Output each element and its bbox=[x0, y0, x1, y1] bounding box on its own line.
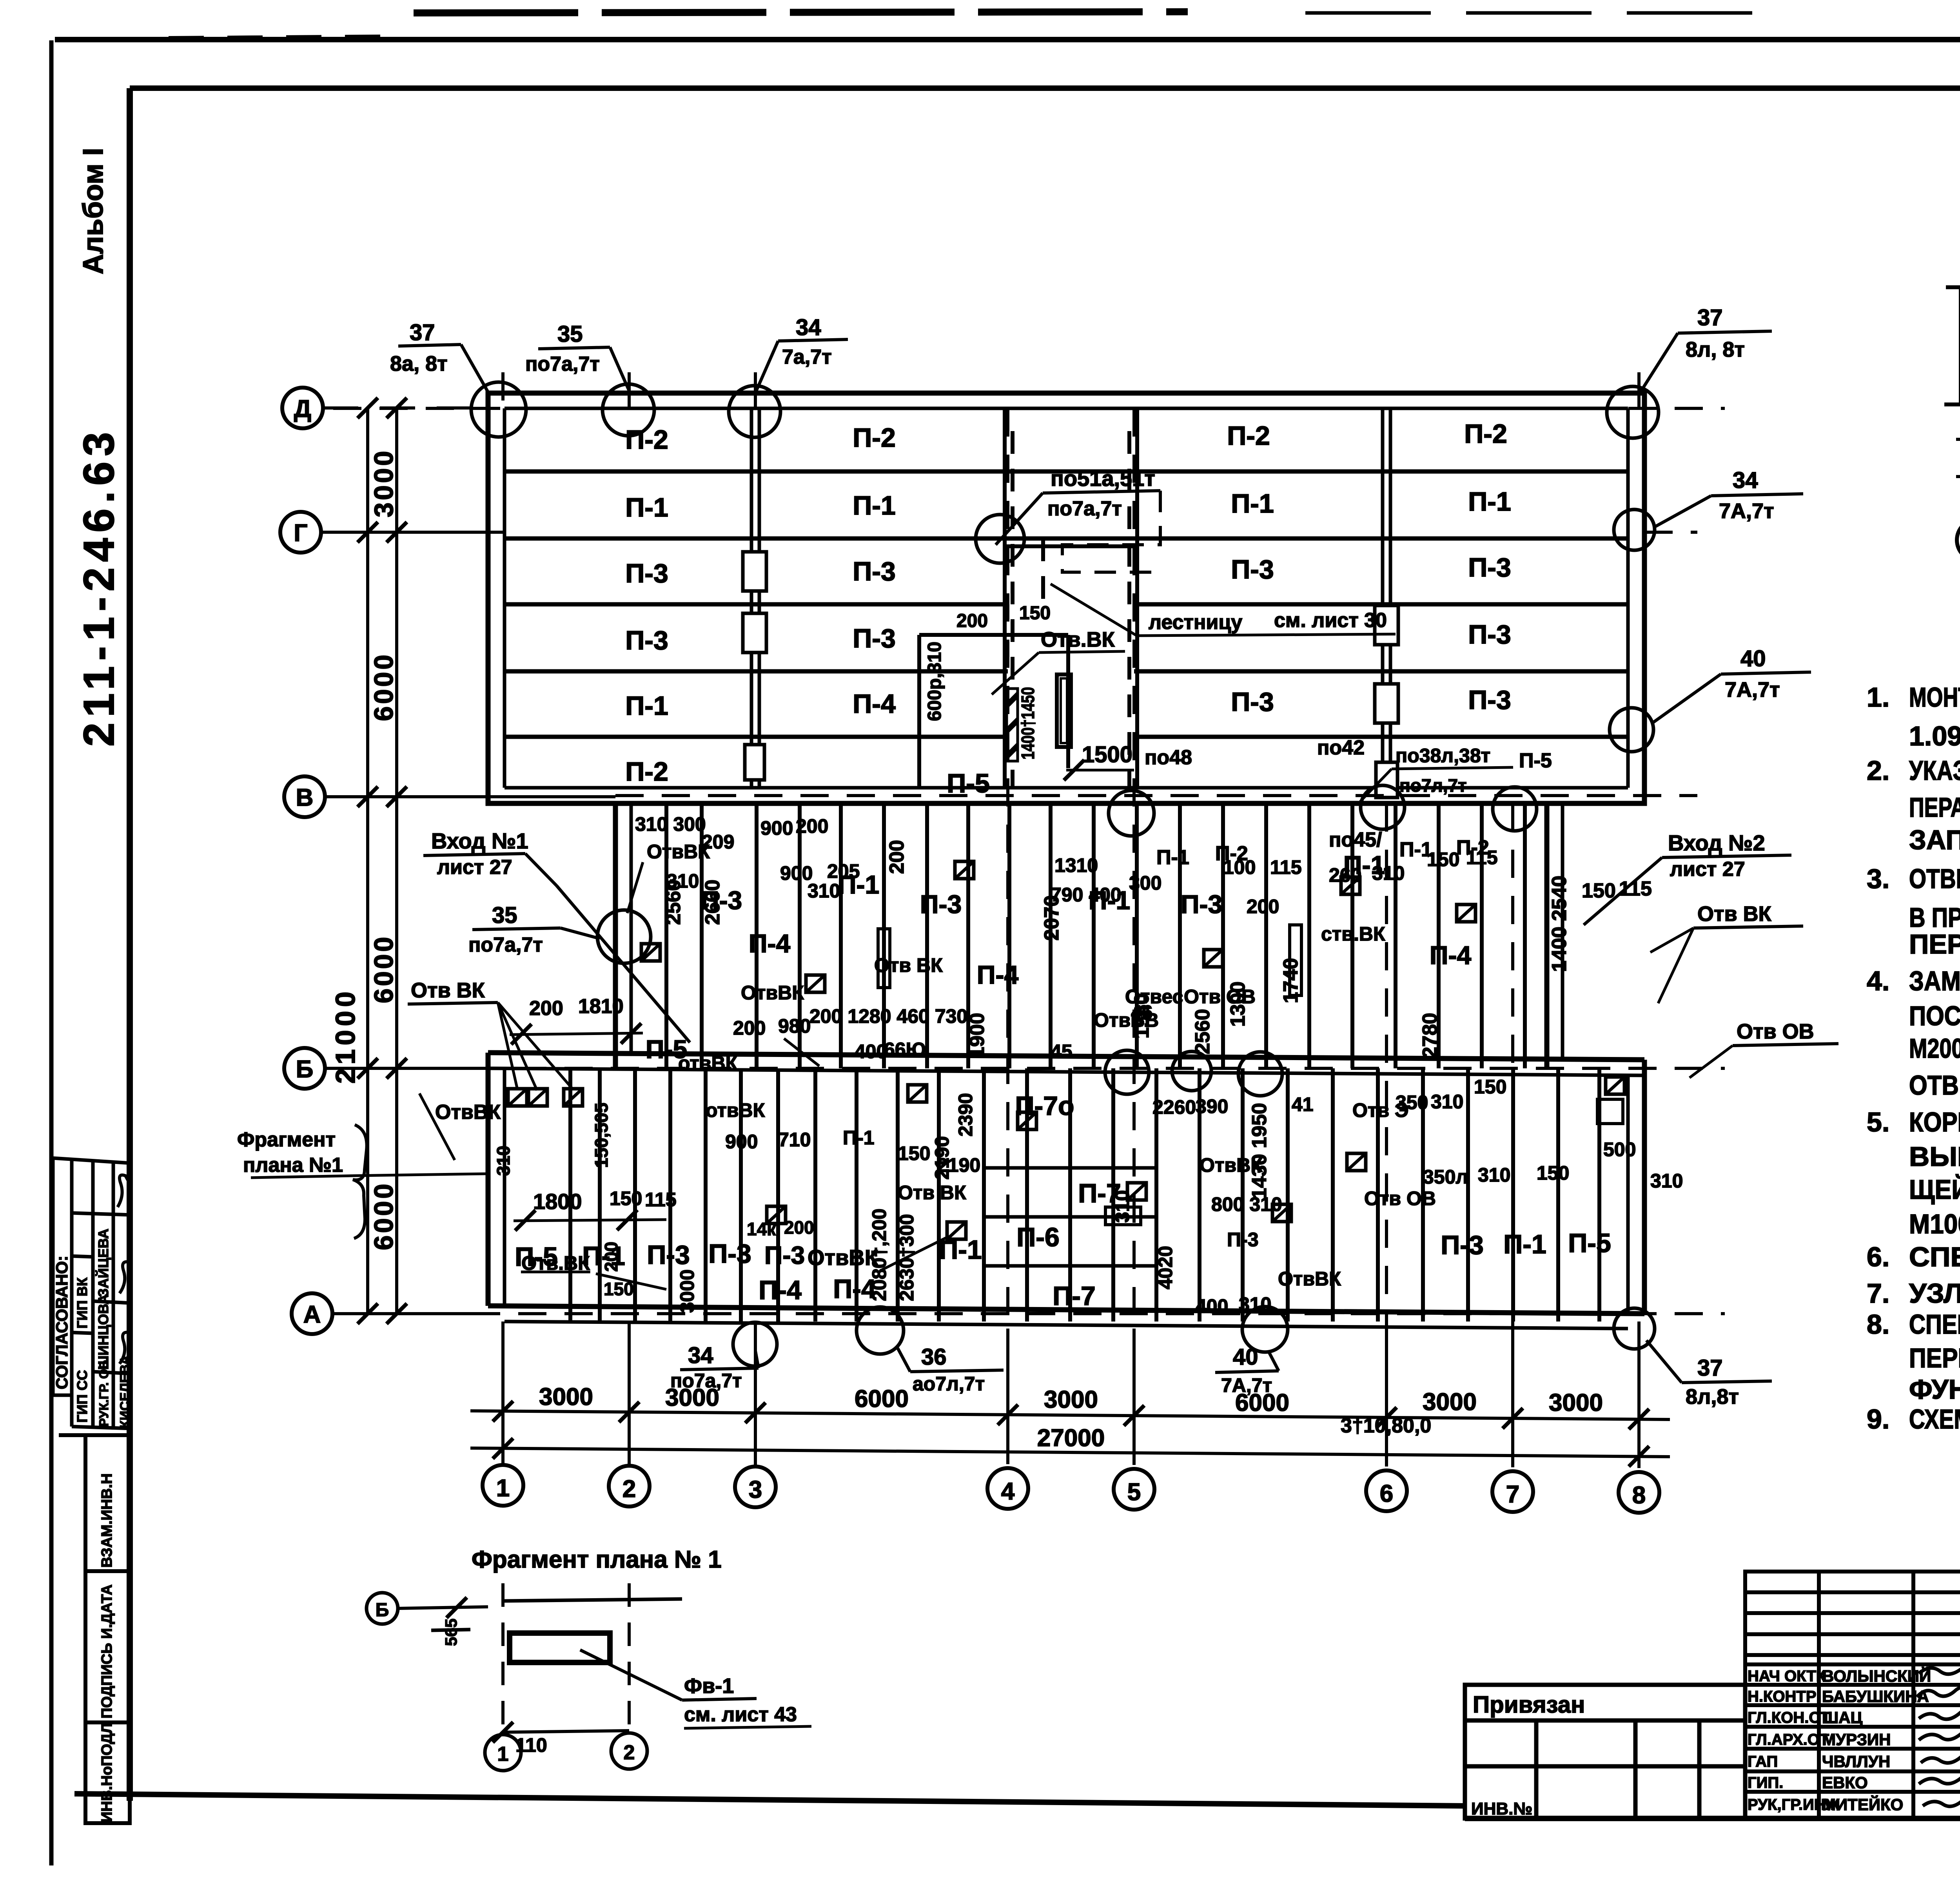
svg-text:500: 500 bbox=[1603, 1138, 1636, 1160]
svg-text:Фрагмент плана № 1: Фрагмент плана № 1 bbox=[472, 1546, 722, 1573]
svg-text:710: 710 bbox=[778, 1129, 811, 1151]
svg-text:3000: 3000 bbox=[369, 449, 399, 517]
svg-text:2560: 2560 bbox=[1191, 1009, 1214, 1054]
svg-text:6: 6 bbox=[1380, 1480, 1393, 1507]
svg-text:по38л,38т: по38л,38т bbox=[1396, 745, 1490, 767]
svg-text:по45/: по45/ bbox=[1329, 828, 1382, 851]
small opening squares scattered bbox=[641, 944, 660, 961]
svg-text:2390: 2390 bbox=[955, 1093, 976, 1137]
svg-text:Отв.ВК: Отв.ВК bbox=[1041, 628, 1115, 651]
fragment callout FV-1 bbox=[580, 1650, 811, 1728]
svg-text:37: 37 bbox=[1697, 305, 1723, 330]
otv vk right bbox=[1650, 902, 1803, 1003]
svg-text:3: 3 bbox=[749, 1476, 762, 1503]
svg-text:8.: 8. bbox=[1867, 1309, 1889, 1340]
title block signature grid bbox=[1745, 1572, 1960, 1818]
svg-text:ГИП ВК: ГИП ВК bbox=[74, 1277, 90, 1329]
svg-text:Π-1: Π-1 bbox=[1503, 1229, 1546, 1259]
svg-text:СОГЛАСОВАНО:: СОГЛАСОВАНО: bbox=[53, 1256, 71, 1389]
callout 37 bottom right bbox=[1646, 1340, 1772, 1409]
svg-text:ОтвВК: ОтвВК bbox=[1278, 1268, 1341, 1290]
svg-text:310: 310 bbox=[808, 880, 840, 902]
page frame outer left line bbox=[49, 40, 54, 1865]
svg-text:ИНВ.№: ИНВ.№ bbox=[1471, 1799, 1532, 1818]
scanner edge artifact top bbox=[414, 12, 1188, 13]
svg-text:Π-3: Π-3 bbox=[1468, 553, 1511, 582]
svg-text:ЩЕЙ ПРОЛИВКОЙ ЦЕМЕНТНЫМ РАСТВО: ЩЕЙ ПРОЛИВКОЙ ЦЕМЕНТНЫМ РАСТВОРОМ bbox=[1909, 1174, 1960, 1205]
svg-text:115: 115 bbox=[1270, 856, 1302, 878]
svg-text:200: 200 bbox=[796, 815, 828, 837]
svg-text:Вход №2: Вход №2 bbox=[1668, 830, 1765, 855]
svg-text:8л, 8т: 8л, 8т bbox=[1686, 338, 1745, 361]
otv ov far left bbox=[419, 1093, 501, 1160]
svg-text:310: 310 bbox=[1239, 1293, 1271, 1315]
svg-text:200: 200 bbox=[529, 997, 563, 1020]
dim 200 1810 bbox=[510, 995, 643, 1044]
svg-text:150: 150 bbox=[1537, 1162, 1569, 1184]
svg-text:1810: 1810 bbox=[578, 995, 624, 1018]
svg-text:НАЧ ОКТК: НАЧ ОКТК bbox=[1748, 1668, 1826, 1685]
svg-text:ИНВ.НоПОДЛ: ИНВ.НоПОДЛ bbox=[99, 1723, 115, 1822]
svg-text:Отв ОВ: Отв ОВ bbox=[1184, 986, 1256, 1008]
callout 37 top right bbox=[1641, 305, 1772, 392]
svg-text:400: 400 bbox=[855, 1041, 887, 1062]
svg-text:Π-3: Π-3 bbox=[853, 557, 896, 586]
section axis circle 4 bbox=[1957, 519, 1960, 561]
svg-text:ГЛ.АРХ.ОТ: ГЛ.АРХ.ОТ bbox=[1748, 1731, 1829, 1748]
entrance 2 label bbox=[1584, 830, 1791, 925]
svg-text:лестницу: лестницу bbox=[1149, 611, 1242, 634]
lintel rects on axis6 bbox=[1375, 605, 1398, 798]
svg-text:см. лист 43: см. лист 43 bbox=[684, 1703, 797, 1726]
mid band top row labels bbox=[1145, 736, 1652, 902]
svg-text:6000: 6000 bbox=[369, 1182, 399, 1250]
svg-text:Отвес: Отвес bbox=[1125, 986, 1183, 1008]
svg-text:211-1-246.63: 211-1-246.63 bbox=[75, 427, 123, 747]
svg-text:Привязан: Привязан bbox=[1473, 1691, 1585, 1718]
svg-text:5.: 5. bbox=[1867, 1107, 1889, 1137]
svg-text:3000: 3000 bbox=[1423, 1389, 1477, 1416]
svg-text:7: 7 bbox=[1506, 1481, 1519, 1508]
callout 34 right bbox=[1654, 468, 1803, 527]
small rect openings bbox=[878, 929, 890, 988]
fragment top line bbox=[431, 1599, 682, 1630]
svg-text:8: 8 bbox=[1632, 1482, 1646, 1509]
upper block panel joint axis6 bbox=[1383, 408, 1390, 788]
callout 37 top left bbox=[390, 320, 488, 393]
svg-text:Π-3: Π-3 bbox=[1231, 687, 1274, 717]
page frame bottom line bbox=[74, 1794, 1466, 1806]
scanner artifact top left dashes bbox=[169, 38, 392, 39]
svg-text:Π-1: Π-1 bbox=[1231, 489, 1274, 518]
svg-text:150: 150 bbox=[1019, 603, 1051, 624]
svg-text:8л,8т: 8л,8т bbox=[1686, 1385, 1739, 1409]
svg-text:980: 980 bbox=[778, 1015, 811, 1037]
svg-text:Π-3: Π-3 bbox=[625, 558, 668, 588]
svg-text:Π-2: Π-2 bbox=[1456, 836, 1489, 859]
left dimension ticks bbox=[358, 398, 407, 1324]
svg-text:2190: 2190 bbox=[937, 1154, 980, 1176]
bottom dimension line row1 bbox=[470, 1411, 1670, 1457]
upper block panel row lines bbox=[505, 471, 1628, 737]
svg-text:209: 209 bbox=[702, 831, 734, 853]
bottom dimension texts bbox=[539, 1383, 1603, 1452]
svg-text:34: 34 bbox=[796, 315, 821, 340]
svg-text:Π-3: Π-3 bbox=[1441, 1230, 1484, 1260]
svg-text:М100 ПОСЛЕ ПРОКЛАДКИ КОММУНИКА: М100 ПОСЛЕ ПРОКЛАДКИ КОММУНИКАЦИЙ. bbox=[1909, 1208, 1960, 1239]
fragment axis B circle bbox=[367, 1593, 488, 1624]
svg-text:плана №1: плана №1 bbox=[243, 1154, 343, 1177]
axis stub lines to bottom circles bbox=[503, 372, 1639, 1468]
svg-text:40: 40 bbox=[1740, 646, 1766, 671]
svg-text:Π-1: Π-1 bbox=[625, 493, 668, 522]
svg-text:отвВК: отвВК bbox=[706, 1099, 765, 1121]
svg-text:Π-1: Π-1 bbox=[1399, 838, 1432, 861]
svg-text:БАБУШКИНА: БАБУШКИНА bbox=[1822, 1687, 1929, 1706]
svg-text:3000: 3000 bbox=[1044, 1386, 1098, 1413]
svg-text:Б: Б bbox=[296, 1056, 314, 1083]
svg-text:200: 200 bbox=[1247, 896, 1279, 917]
svg-text:200: 200 bbox=[784, 1217, 814, 1238]
svg-text:150: 150 bbox=[610, 1187, 642, 1209]
lower block bottom wall bbox=[488, 1053, 1644, 1329]
svg-text:Д: Д bbox=[294, 395, 311, 422]
callout 34 bottom bbox=[670, 1343, 759, 1392]
upper block outer wall bbox=[488, 393, 1644, 803]
svg-text:ПЕРЕКРЫТИЙ.: ПЕРЕКРЫТИЙ. bbox=[1909, 928, 1960, 959]
svg-text:Π-7: Π-7 bbox=[1053, 1281, 1096, 1311]
svg-text:УКАЗАНИЯ ПО МОНТАЖУ ПРИ ОТРИЦА: УКАЗАНИЯ ПО МОНТАЖУ ПРИ ОТРИЦАТЕЛЬНЫХ ТЕ… bbox=[1909, 755, 1960, 786]
svg-text:6000: 6000 bbox=[855, 1385, 909, 1412]
svg-text:по7а,7т: по7а,7т bbox=[525, 353, 600, 375]
svg-text:лист 27: лист 27 bbox=[437, 856, 512, 879]
svg-text:Π-3: Π-3 bbox=[1181, 890, 1222, 919]
svg-text:по42: по42 bbox=[1317, 736, 1365, 759]
svg-text:СПЕЦИФИКАЦИЮ СМ. ЛИСТ 26: СПЕЦИФИКАЦИЮ СМ. ЛИСТ 26 bbox=[1909, 1242, 1960, 1272]
svg-text:по7л,7т: по7л,7т bbox=[1399, 775, 1467, 796]
svg-text:6000: 6000 bbox=[369, 935, 399, 1003]
svg-text:по7а,7т: по7а,7т bbox=[468, 934, 543, 956]
mid band small dim texts bbox=[706, 847, 1683, 1317]
svg-text:Π-1: Π-1 bbox=[1468, 487, 1511, 517]
svg-text:4.: 4. bbox=[1867, 966, 1889, 996]
svg-text:200: 200 bbox=[733, 1017, 766, 1039]
notes list bbox=[1867, 682, 1960, 1434]
svg-text:ПОДПИСЬ И.ДАТА: ПОДПИСЬ И.ДАТА bbox=[99, 1584, 115, 1719]
svg-text:по7а,7т: по7а,7т bbox=[670, 1370, 742, 1392]
svg-text:ПЕРАТУРАХ НАРУЖНОГО ВОЗДУХА СМ: ПЕРАТУРАХ НАРУЖНОГО ВОЗДУХА СМ.ПОЯСНИТЕЛ… bbox=[1909, 792, 1960, 823]
svg-text:МОНТАЖ ПРОИЗВОДИТЬ ПО УКАЗАНИЯ: МОНТАЖ ПРОИЗВОДИТЬ ПО УКАЗАНИЯМ ВЫП7-1СЕ… bbox=[1909, 682, 1960, 712]
svg-text:260: 260 bbox=[1329, 864, 1361, 886]
svg-text:36: 36 bbox=[921, 1344, 947, 1370]
svg-text:Π-3: Π-3 bbox=[1468, 685, 1511, 715]
svg-text:310: 310 bbox=[493, 1146, 514, 1176]
dashed vertical axis lines bbox=[503, 372, 1639, 1466]
svg-text:310: 310 bbox=[1650, 1170, 1683, 1192]
svg-text:ШАЦ: ШАЦ bbox=[1822, 1708, 1863, 1727]
page frame inner top line bbox=[130, 85, 1960, 91]
svg-text:1500: 1500 bbox=[1082, 742, 1132, 767]
svg-text:Π-3: Π-3 bbox=[920, 890, 962, 919]
svg-text:ГИП.: ГИП. bbox=[1748, 1774, 1783, 1791]
svg-text:см. лист 30: см. лист 30 bbox=[1274, 609, 1387, 632]
svg-text:Отв ВК: Отв ВК bbox=[411, 979, 485, 1002]
left axis leader lines bbox=[321, 408, 615, 1314]
upper block panel joint axis3 bbox=[751, 408, 759, 788]
svg-text:8а, 8т: 8а, 8т bbox=[390, 352, 448, 375]
svg-text:310: 310 bbox=[1478, 1164, 1510, 1186]
svg-text:ЧВЛЛУН: ЧВЛЛУН bbox=[1822, 1752, 1890, 1771]
svg-text:В ПРЕДЕЛАХ ПУСТОТ, НЕ НАРУШАЯ: В ПРЕДЕЛАХ ПУСТОТ, НЕ НАРУШАЯ РЕБЕР ПЛИТ bbox=[1909, 902, 1960, 933]
svg-text:Π-3: Π-3 bbox=[647, 1240, 690, 1270]
svg-text:310: 310 bbox=[666, 870, 699, 892]
svg-text:Π-1: Π-1 bbox=[853, 491, 896, 520]
svg-text:по7а,7т: по7а,7т bbox=[1047, 497, 1122, 520]
svg-text:310: 310 bbox=[1431, 1091, 1463, 1113]
svg-text:205: 205 bbox=[827, 860, 860, 882]
corner circles B line bbox=[1105, 1050, 1149, 1094]
svg-text:КИСЕЛЕВА: КИСЕЛЕВА bbox=[118, 1356, 132, 1428]
svg-text:ОТВЕРСТИЯ ДИАМЕТРОМ ДО 150ММ П: ОТВЕРСТИЯ ДИАМЕТРОМ ДО 150ММ ПРОБИВАТЬ bbox=[1909, 863, 1960, 894]
svg-text:ФУНДАМЕНТ ФО-1 СМ. ЛИСТ 35.: ФУНДАМЕНТ ФО-1 СМ. ЛИСТ 35. bbox=[1909, 1374, 1960, 1405]
svg-text:Π-3: Π-3 bbox=[764, 1241, 805, 1269]
svg-text:ОтвВК: ОтвВК bbox=[808, 1245, 878, 1270]
svg-text:310 300: 310 300 bbox=[635, 813, 706, 835]
fragment label left bbox=[237, 1125, 486, 1238]
svg-text:Π-5: Π-5 bbox=[1519, 749, 1552, 772]
svg-text:40: 40 bbox=[1233, 1344, 1258, 1370]
page frame inner left line bbox=[127, 88, 133, 1801]
svg-text:2660: 2660 bbox=[701, 879, 724, 925]
svg-text:150,505: 150,505 bbox=[591, 1103, 612, 1168]
svg-text:Отв ВК: Отв ВК bbox=[898, 1182, 966, 1204]
svg-text:лист 27: лист 27 bbox=[1670, 858, 1745, 881]
svg-text:ОТВЕРСТИЙ РАЗМЕРОМ ⋝300 ММ.: ОТВЕРСТИЙ РАЗМЕРОМ ⋝300 ММ. bbox=[1909, 1070, 1960, 1100]
sidebar gost strip bbox=[59, 1435, 130, 1823]
svg-text:Π-1: Π-1 bbox=[843, 1127, 875, 1149]
lower block top wall bbox=[488, 1053, 1644, 1075]
title block signature titles bbox=[1748, 1668, 1840, 1813]
svg-text:ШИНЦОВА: ШИНЦОВА bbox=[95, 1294, 111, 1370]
svg-text:Отв ОВ: Отв ОВ bbox=[1364, 1187, 1436, 1209]
stair otv vk label bbox=[992, 628, 1125, 694]
callout 40 bottom bbox=[1215, 1344, 1279, 1396]
svg-text:Π-4: Π-4 bbox=[1430, 941, 1472, 970]
svg-text:150: 150 bbox=[604, 1279, 634, 1299]
svg-text:Π-3: Π-3 bbox=[708, 1239, 751, 1269]
svg-text:Π-5: Π-5 bbox=[947, 769, 990, 798]
svg-text:ЗАЙЦЕВА: ЗАЙЦЕВА bbox=[95, 1229, 111, 1297]
otv ov right bbox=[1690, 1020, 1838, 1078]
corner circle axis4 G bbox=[976, 515, 1024, 563]
svg-text:ЗАМОНОЛИЧИВАНИЕ ОТВЕРСТИЙ ВЫПО: ЗАМОНОЛИЧИВАНИЕ ОТВЕРСТИЙ ВЫПОЛНЯТЬ bbox=[1909, 965, 1960, 996]
fragment axis circles bbox=[485, 1733, 647, 1771]
svg-text:А: А bbox=[303, 1301, 321, 1328]
section left pier bbox=[1944, 287, 1960, 404]
svg-text:по48: по48 bbox=[1145, 746, 1192, 769]
svg-text:ао7л,7т: ао7л,7т bbox=[913, 1373, 985, 1395]
svg-text:115: 115 bbox=[645, 1189, 677, 1211]
fragment bottom dim bbox=[493, 1722, 629, 1756]
svg-text:7.: 7. bbox=[1867, 1278, 1889, 1309]
svg-text:900: 900 bbox=[760, 817, 793, 839]
svg-text:600р,310: 600р,310 bbox=[924, 642, 945, 721]
stairwell inner walls bbox=[919, 408, 1137, 788]
svg-text:Π-1: Π-1 bbox=[625, 691, 668, 721]
svg-text:СХЕМУ РАСЧЕТНЫХ НАГРУЗОК СМ. Л: СХЕМУ РАСЧЕТНЫХ НАГРУЗОК СМ. ЛИСТ 36. bbox=[1909, 1404, 1960, 1434]
svg-text:41: 41 bbox=[1292, 1093, 1314, 1115]
section dim row2 bbox=[1956, 445, 1960, 487]
svg-text:350л: 350л bbox=[1423, 1166, 1468, 1188]
fragment axis dash lines bbox=[503, 1583, 629, 1732]
callout 35 mid left bbox=[468, 903, 600, 956]
svg-text:Н.КОНТР: Н.КОНТР bbox=[1748, 1688, 1817, 1705]
svg-text:2080†,200: 2080†,200 bbox=[868, 1209, 890, 1301]
svg-text:27000: 27000 bbox=[1037, 1425, 1105, 1452]
svg-text:1.: 1. bbox=[1867, 682, 1889, 712]
bottom axis number circles bbox=[483, 1465, 1659, 1513]
svg-text:4020: 4020 bbox=[1154, 1246, 1176, 1289]
svg-text:Π-4: Π-4 bbox=[977, 960, 1019, 989]
svg-text:200 1280 460 730: 200 1280 460 730 bbox=[809, 1005, 967, 1027]
bottom dimension ticks row1 bbox=[493, 1401, 1649, 1467]
svg-text:ОтвВК: ОтвВК bbox=[1200, 1154, 1263, 1176]
svg-text:ГАП: ГАП bbox=[1748, 1753, 1778, 1770]
title block signature names bbox=[1822, 1666, 1931, 1814]
svg-text:Отв ВК: Отв ВК bbox=[1697, 902, 1772, 926]
svg-text:ВЗАМ.ИНВ.Н: ВЗАМ.ИНВ.Н bbox=[99, 1473, 115, 1568]
svg-text:1400†1450: 1400†1450 bbox=[1018, 687, 1038, 760]
corner circle axis6 V bbox=[1361, 785, 1405, 829]
dim group above B wall left bbox=[635, 813, 926, 1074]
svg-text:200: 200 bbox=[956, 611, 988, 631]
svg-text:ПЕРЕКРЫТИЯ В ОСЯХ 4-5, В-Д СМ: ПЕРЕКРЫТИЯ В ОСЯХ 4-5, В-Д СМ. ЛИСТ 26, … bbox=[1909, 1343, 1960, 1373]
svg-text:66Ю: 66Ю bbox=[884, 1039, 926, 1060]
svg-text:Π-7о: Π-7о bbox=[1015, 1091, 1074, 1121]
svg-text:Π-2: Π-2 bbox=[853, 423, 896, 453]
svg-text:Π-1: Π-1 bbox=[1156, 846, 1189, 869]
callout po51a bbox=[996, 466, 1160, 572]
svg-text:Г: Г bbox=[294, 520, 307, 547]
svg-text:2780: 2780 bbox=[1419, 1013, 1441, 1058]
svg-text:9.: 9. bbox=[1867, 1404, 1889, 1434]
svg-text:3†10,80,0: 3†10,80,0 bbox=[1341, 1414, 1431, 1437]
svg-text:ОтвВК: ОтвВК bbox=[647, 841, 710, 863]
svg-text:ОтвВК: ОтвВК bbox=[741, 982, 804, 1004]
svg-text:ЗАПИСКУ.: ЗАПИСКУ. bbox=[1909, 825, 1960, 855]
otv vk lower left bbox=[521, 1252, 666, 1289]
svg-text:3000: 3000 bbox=[1549, 1389, 1603, 1416]
upper block panel labels bbox=[625, 419, 1511, 798]
svg-text:ОтвБВ: ОтвБВ bbox=[1094, 1009, 1159, 1031]
svg-text:Π-3: Π-3 bbox=[853, 624, 896, 653]
corner circle axis5 V bbox=[1109, 790, 1154, 836]
svg-text:115: 115 bbox=[1619, 877, 1652, 900]
svg-text:Альбом I: Альбом I bbox=[78, 148, 109, 274]
stair duct rect bbox=[1057, 674, 1071, 747]
entrance 1 label bbox=[423, 828, 690, 1042]
svg-text:310: 310 bbox=[1372, 862, 1405, 884]
svg-text:Π-2: Π-2 bbox=[1464, 419, 1507, 449]
svg-text:Π-4: Π-4 bbox=[853, 689, 896, 719]
svg-text:3000: 3000 bbox=[676, 1269, 698, 1313]
callout 34 top bbox=[756, 315, 848, 392]
svg-text:Б: Б bbox=[376, 1600, 389, 1621]
svg-text:2: 2 bbox=[622, 1476, 636, 1503]
svg-text:3000: 3000 bbox=[539, 1383, 593, 1410]
svg-text:МУРЗИН: МУРЗИН bbox=[1822, 1730, 1891, 1749]
svg-text:Π-5: Π-5 bbox=[1568, 1228, 1611, 1258]
svg-text:150: 150 bbox=[898, 1142, 930, 1164]
svg-text:Π-2: Π-2 bbox=[1215, 842, 1248, 865]
svg-text:СПЕЦИФИКАЦИЮ НА МОНОЛИТНЫЕ ЭЛЕ: СПЕЦИФИКАЦИЮ НА МОНОЛИТНЫЕ ЭЛЕМЕНТЫ bbox=[1909, 1309, 1960, 1340]
svg-text:45: 45 bbox=[1051, 1041, 1073, 1062]
sidebar approval signatures bbox=[118, 1175, 129, 1364]
svg-text:5: 5 bbox=[1127, 1479, 1141, 1506]
svg-text:1: 1 bbox=[496, 1475, 510, 1502]
svg-text:Отв ОВ: Отв ОВ bbox=[1737, 1020, 1814, 1043]
svg-text:150: 150 bbox=[1474, 1076, 1506, 1098]
corner circle midleft bbox=[597, 910, 651, 963]
svg-text:Π-4: Π-4 bbox=[749, 929, 791, 958]
svg-text:Π-5: Π-5 bbox=[515, 1242, 558, 1272]
callout po38l bbox=[1360, 745, 1513, 801]
svg-text:Π-3: Π-3 bbox=[1468, 620, 1511, 649]
svg-text:1400 2540: 1400 2540 bbox=[1548, 876, 1571, 972]
svg-text:2.: 2. bbox=[1867, 755, 1889, 786]
page frame outer top line bbox=[55, 37, 1960, 42]
lower block vertical panel joints bbox=[570, 1068, 1599, 1322]
sidebar approval table bbox=[53, 1158, 131, 1430]
svg-text:Π-2: Π-2 bbox=[1227, 421, 1270, 451]
title block signature squiggles bbox=[1917, 1664, 1960, 1806]
middle band vertical panel joints bbox=[666, 803, 1525, 1068]
callout 35 top bbox=[525, 321, 629, 390]
svg-text:УЗЛЫ СМ. ВЫП. 7-1 СЕРИИ 1.0: УЗЛЫ СМ. ВЫП. 7-1 СЕРИИ 1.090.1-1. bbox=[1909, 1278, 1960, 1309]
small opening squares lower left bbox=[508, 1089, 527, 1106]
svg-text:В: В bbox=[296, 784, 314, 811]
svg-text:1.090. 1-1.: 1.090. 1-1. bbox=[1909, 721, 1960, 751]
svg-text:7А,7т: 7А,7т bbox=[1719, 499, 1774, 523]
svg-text:Фв-1: Фв-1 bbox=[684, 1674, 734, 1698]
callout 40 right bbox=[1652, 646, 1811, 723]
svg-text:КОРЫТО В ПЛИТАХ ПР ЗАПОЛНЯЕТС: КОРЫТО В ПЛИТАХ ПР ЗАПОЛНЯЕТСЯ КЕРАМЗИТО… bbox=[1909, 1107, 1960, 1137]
scanner edge artifact top right bbox=[1305, 11, 1782, 15]
otv vk mid left bbox=[408, 979, 573, 1090]
svg-text:Π-3: Π-3 bbox=[625, 625, 668, 655]
svg-text:отвВК: отвВК bbox=[678, 1052, 738, 1074]
top corner circles bbox=[471, 382, 526, 437]
dim 1800 row bbox=[514, 1187, 677, 1231]
stair duct rect inner bbox=[1061, 678, 1067, 743]
corner circle axis7 V bbox=[1493, 787, 1537, 831]
stair label bbox=[1051, 584, 1396, 636]
callout 36 bottom bbox=[898, 1344, 1004, 1395]
svg-text:350: 350 bbox=[1396, 1091, 1428, 1113]
svg-text:900: 900 bbox=[725, 1131, 758, 1153]
svg-text:6000: 6000 bbox=[369, 653, 399, 721]
left vertical dimension lines bbox=[368, 408, 397, 1314]
svg-text:400: 400 bbox=[1196, 1295, 1228, 1317]
svg-text:Вход №1: Вход №1 bbox=[431, 828, 528, 853]
svg-text:2260: 2260 bbox=[1152, 1096, 1196, 1118]
svg-text:300: 300 bbox=[1129, 872, 1161, 894]
svg-text:2: 2 bbox=[624, 1741, 635, 1764]
svg-text:7А,7т: 7А,7т bbox=[1221, 1374, 1272, 1396]
svg-text:150: 150 bbox=[1582, 879, 1616, 902]
label p3 otv vk bbox=[747, 1217, 966, 1270]
stair hatched strip bbox=[1007, 689, 1018, 761]
